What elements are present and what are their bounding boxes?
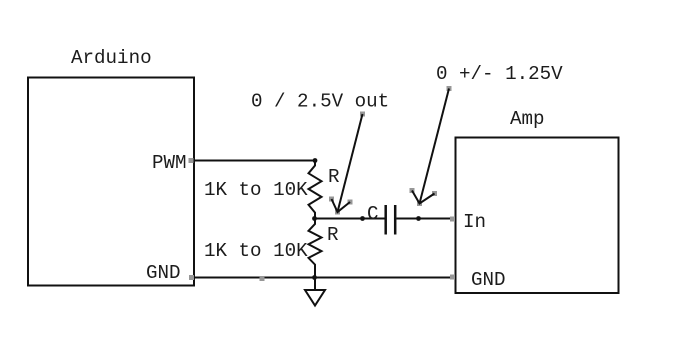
handle arrow 1 tip	[335, 210, 340, 215]
Amp box	[456, 138, 619, 294]
wire node B to capacitor	[315, 218, 385, 220]
wire PWM to node A	[194, 160, 315, 162]
svg-text:C: C	[367, 203, 379, 225]
junction dot on In wire	[416, 216, 421, 221]
svg-text:1K to 10K: 1K to 10K	[204, 179, 308, 201]
svg-text:Amp: Amp	[510, 108, 545, 130]
svg-text:GND: GND	[146, 262, 181, 284]
Arduino box	[28, 78, 194, 286]
svg-text:PWM: PWM	[152, 152, 187, 174]
handle Amp In pin	[450, 217, 455, 222]
resistor R2	[309, 219, 322, 278]
leader arrow 1 head	[332, 199, 351, 212]
handle arrow 2 barb right	[432, 191, 437, 196]
handle arrow 2 start	[447, 86, 452, 91]
svg-text:GND: GND	[471, 269, 506, 291]
capacitor C plate right	[394, 205, 397, 235]
handle PWM pin	[189, 158, 194, 163]
handle GND bus midpoint	[260, 276, 265, 281]
junction dot node B (R1/R2 midpoint)	[312, 216, 317, 221]
svg-text:0 +/- 1.25V: 0 +/- 1.25V	[436, 63, 563, 85]
junction dot node A	[313, 158, 318, 163]
svg-text:R: R	[328, 166, 340, 188]
handle Amp GND pin	[450, 275, 455, 280]
svg-text:In: In	[463, 211, 486, 233]
wire GND bus (Arduino GND to Amp GND)	[194, 277, 456, 279]
junction dot on node B wire	[360, 216, 365, 221]
leader arrow 2 line	[420, 89, 450, 204]
wire R2 to ground	[314, 278, 316, 291]
svg-text:Arduino: Arduino	[71, 47, 152, 69]
capacitor C plate left	[384, 205, 387, 235]
resistor R1	[309, 161, 322, 219]
leader arrow 2 head	[412, 191, 435, 204]
handle arrow 1 barb left	[329, 197, 334, 202]
wire capacitor to Amp In	[397, 218, 456, 220]
svg-text:R: R	[327, 224, 339, 246]
svg-text:0 / 2.5V out: 0 / 2.5V out	[251, 91, 389, 113]
leader arrow 1 line	[338, 114, 363, 212]
handle arrow 1 barb right	[348, 200, 353, 205]
handle arrow 1 start	[360, 112, 365, 117]
handle arrow 2 tip	[417, 201, 422, 206]
handle arrow 2 barb left	[410, 188, 415, 193]
ground	[305, 290, 325, 306]
handle Arduino GND pin	[189, 275, 194, 280]
svg-text:1K to 10K: 1K to 10K	[204, 240, 308, 262]
junction dot GND bus at R2	[312, 275, 317, 280]
